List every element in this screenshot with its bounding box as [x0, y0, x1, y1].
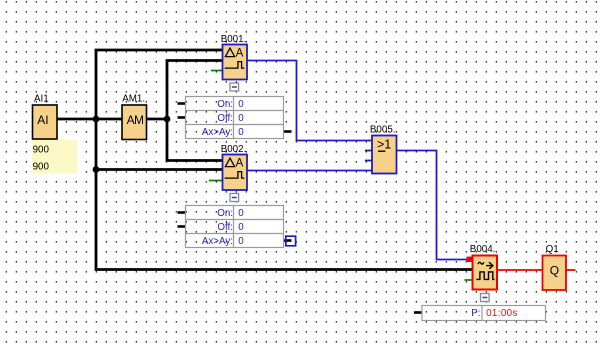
svg-text:01:00s: 01:00s — [486, 308, 518, 319]
svg-text:0: 0 — [238, 236, 244, 247]
svg-text:A: A — [236, 158, 244, 170]
svg-text:0: 0 — [238, 99, 244, 110]
svg-text:0: 0 — [238, 208, 244, 219]
svg-text:A: A — [236, 48, 244, 60]
svg-text:On:: On: — [217, 99, 233, 110]
svg-text:On:: On: — [217, 208, 233, 219]
svg-text:Ax>Ay:: Ax>Ay: — [202, 236, 233, 247]
svg-text:>1: >1 — [377, 138, 391, 152]
svg-text:B002.: B002. — [221, 144, 247, 155]
svg-text:0: 0 — [238, 127, 244, 138]
svg-text:900: 900 — [33, 144, 50, 155]
svg-text:B005.: B005. — [370, 124, 396, 135]
svg-text:AM1.: AM1. — [122, 93, 145, 104]
svg-text:AM: AM — [127, 113, 144, 127]
svg-text:AI: AI — [37, 113, 48, 127]
svg-text:900: 900 — [33, 162, 50, 173]
svg-text:Off:: Off: — [217, 222, 233, 233]
svg-text:0: 0 — [238, 222, 244, 233]
svg-text:Q: Q — [550, 264, 559, 278]
svg-text:B004.: B004. — [470, 244, 496, 255]
svg-text:P:: P: — [471, 308, 480, 319]
svg-text:Off:: Off: — [217, 113, 233, 124]
svg-text:Ax>Ay:: Ax>Ay: — [202, 127, 233, 138]
svg-text:B001.: B001. — [221, 34, 247, 45]
svg-text:0: 0 — [238, 113, 244, 124]
svg-text:AI1: AI1 — [34, 94, 49, 105]
svg-text:Q1: Q1 — [546, 244, 559, 255]
